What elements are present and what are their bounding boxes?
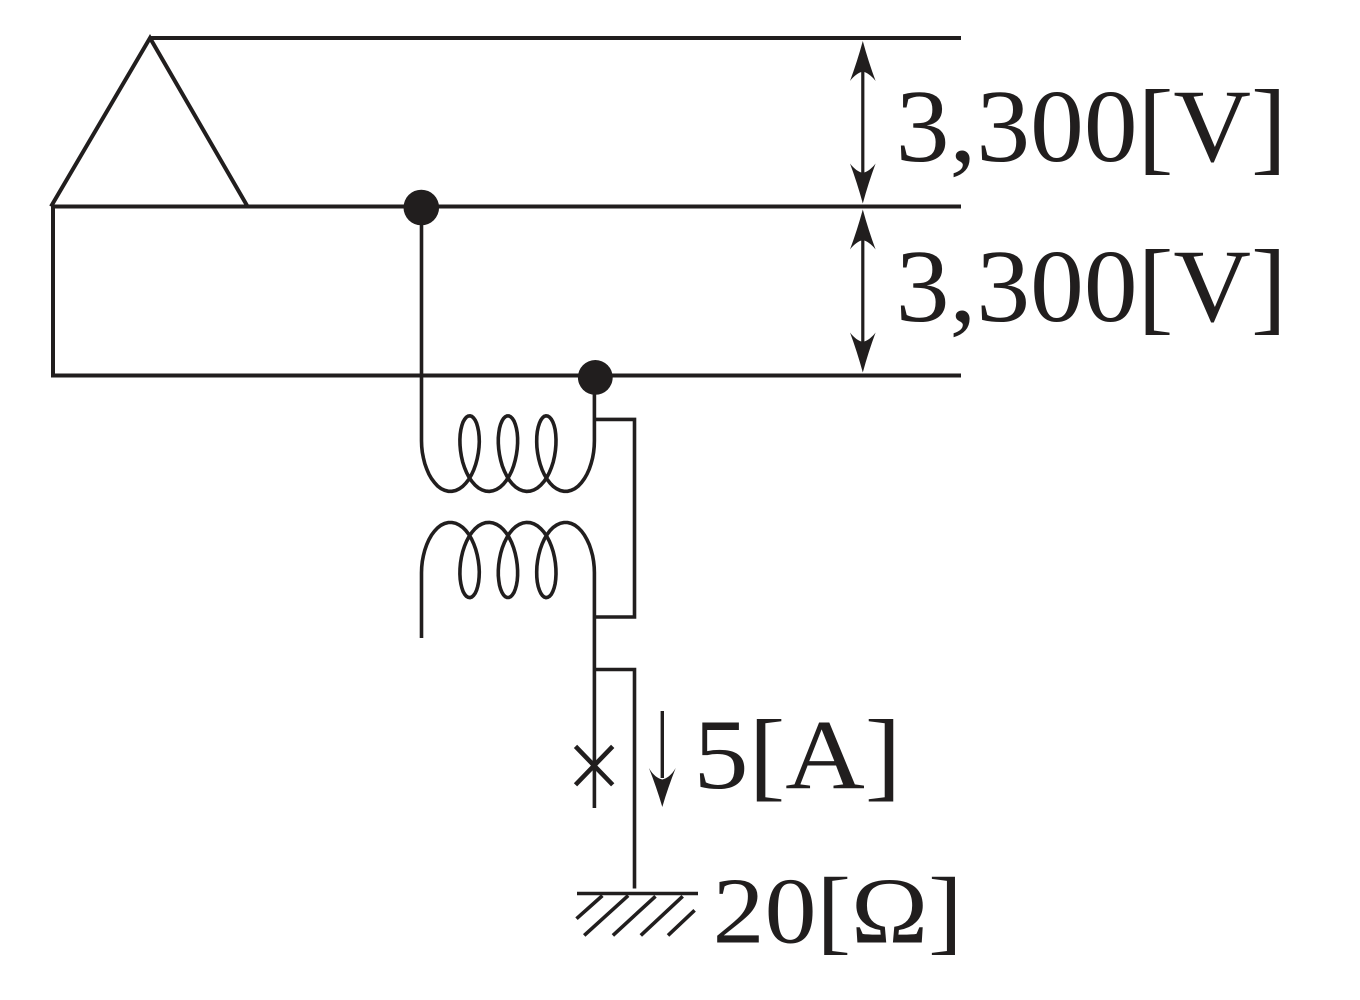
svg-text:3,300[V]: 3,300[V] <box>896 69 1287 184</box>
current arrow head <box>649 768 676 807</box>
wire: faulted stub below junction <box>593 670 597 809</box>
wire: jumper from node B lead to secondary right lead <box>594 419 634 617</box>
delta winding symbol of source transformer <box>51 38 247 207</box>
wire: bottom bus line <box>51 374 961 378</box>
current arrow shaft for 5[A] <box>661 711 664 778</box>
wire: left vertical between middle and bottom lines <box>51 207 55 376</box>
wire: middle bus line <box>51 205 961 209</box>
inductor: transformer primary winding <box>422 207 595 491</box>
wire: top bus line <box>150 36 961 40</box>
svg-text:3,300[V]: 3,300[V] <box>896 229 1287 344</box>
wire: ground lead with jog <box>594 670 634 889</box>
inductor: transformer secondary winding <box>422 522 595 669</box>
dimension arrow between middle and bottom line (3,300 V) <box>861 238 864 343</box>
fault mark x on stub <box>576 746 613 784</box>
svg-text:20[Ω]: 20[Ω] <box>713 860 963 964</box>
svg-text:5[A]: 5[A] <box>694 699 902 810</box>
node A: junction on middle line <box>404 190 440 226</box>
dimension arrow between top and middle line (3,300 V) <box>861 70 864 175</box>
ground symbol <box>577 894 699 936</box>
node B: junction on bottom line <box>578 360 613 395</box>
